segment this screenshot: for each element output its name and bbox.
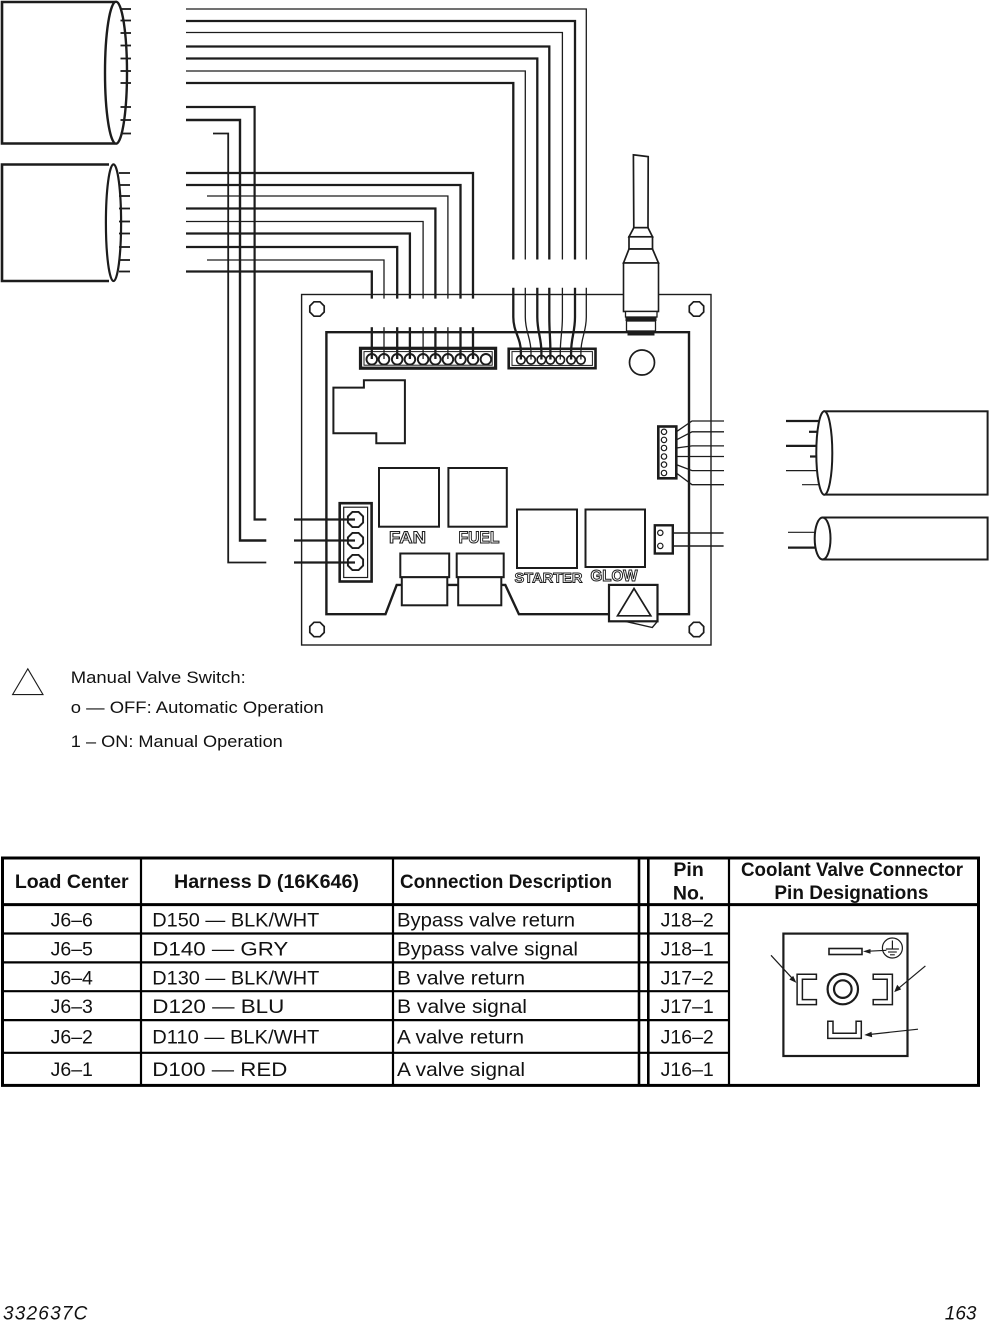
svg-text:1 – ON: Manual Operation: 1 – ON: Manual Operation [71, 732, 283, 751]
svg-text:No.: No. [673, 883, 704, 905]
svg-text:GLOW: GLOW [591, 568, 638, 585]
svg-text:STARTER: STARTER [515, 570, 583, 586]
svg-text:J18–1: J18–1 [661, 938, 714, 960]
svg-text:A valve return: A valve return [397, 1027, 524, 1049]
svg-text:D110 — BLK/WHT: D110 — BLK/WHT [152, 1027, 319, 1049]
svg-text:J18–2: J18–2 [661, 910, 714, 932]
svg-text:D120 — BLU: D120 — BLU [152, 996, 284, 1018]
svg-text:Pin Designations: Pin Designations [774, 882, 928, 904]
svg-text:Manual Valve Switch:: Manual Valve Switch: [71, 668, 246, 687]
svg-text:332637C: 332637C [3, 1304, 89, 1321]
svg-text:J6–3: J6–3 [51, 996, 93, 1018]
svg-text:J6–2: J6–2 [51, 1027, 93, 1049]
svg-text:J6–6: J6–6 [51, 910, 93, 932]
svg-text:Load Center: Load Center [15, 871, 129, 893]
svg-text:Pin: Pin [673, 859, 703, 881]
svg-text:J16–2: J16–2 [661, 1027, 714, 1049]
svg-text:B valve return: B valve return [397, 967, 525, 989]
svg-text:J17–2: J17–2 [661, 967, 714, 989]
svg-text:D130 — BLK/WHT: D130 — BLK/WHT [152, 967, 319, 989]
svg-text:Bypass valve signal: Bypass valve signal [397, 938, 578, 960]
svg-text:J6–4: J6–4 [51, 967, 93, 989]
svg-text:B valve signal: B valve signal [397, 996, 527, 1018]
svg-text:Connection Description: Connection Description [400, 871, 612, 893]
svg-text:J6–5: J6–5 [51, 938, 93, 960]
svg-text:J6–1: J6–1 [51, 1059, 93, 1081]
svg-text:A valve signal: A valve signal [397, 1059, 525, 1081]
svg-text:J17–1: J17–1 [661, 996, 714, 1018]
svg-text:D150 — BLK/WHT: D150 — BLK/WHT [152, 910, 319, 932]
svg-text:Harness D (16K646): Harness D (16K646) [174, 871, 359, 893]
svg-text:Coolant Valve Connector: Coolant Valve Connector [741, 859, 963, 881]
svg-text:D100 — RED: D100 — RED [152, 1059, 287, 1081]
svg-text:D140 — GRY: D140 — GRY [152, 938, 288, 960]
svg-text:FAN: FAN [389, 528, 426, 547]
svg-text:163: 163 [945, 1304, 977, 1321]
svg-text:J16–1: J16–1 [661, 1059, 714, 1081]
svg-text:Bypass valve return: Bypass valve return [397, 910, 575, 932]
svg-text:FUEL: FUEL [459, 528, 500, 547]
svg-text:o — OFF: Automatic Operation: o — OFF: Automatic Operation [71, 698, 324, 717]
